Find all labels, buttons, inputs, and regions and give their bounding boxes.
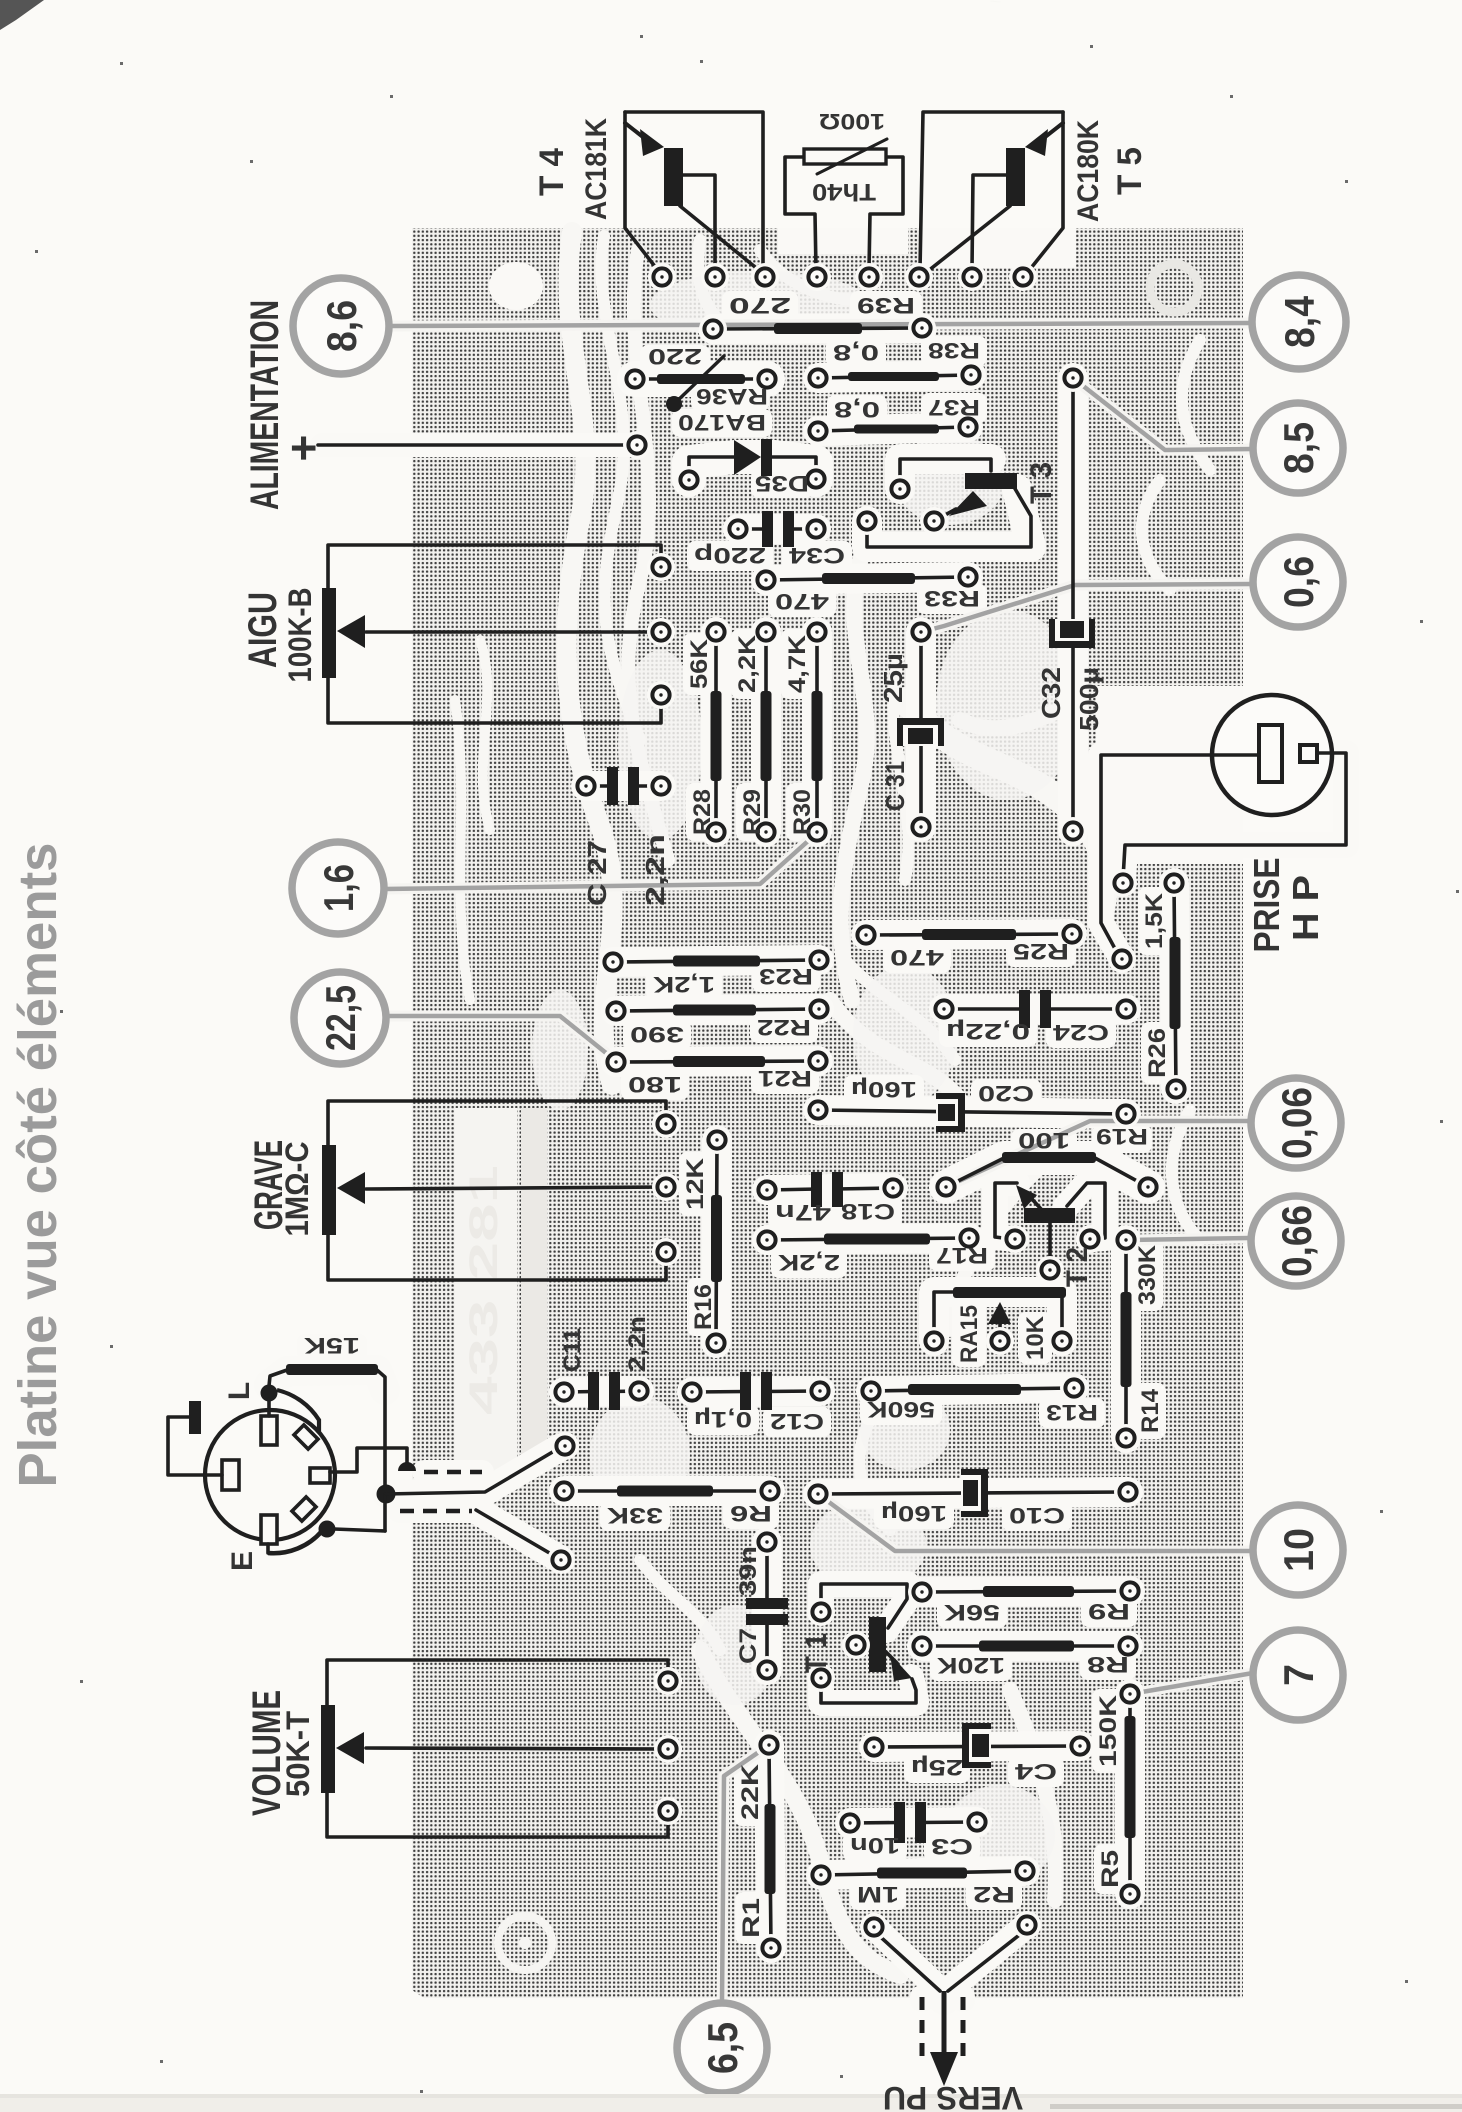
svg-text:0,8: 0,8 (833, 340, 879, 365)
svg-text:R25: R25 (1013, 939, 1069, 964)
svg-text:R28: R28 (689, 789, 716, 835)
resistor R14 (1112, 1226, 1164, 1452)
svg-text:C11: C11 (559, 1328, 586, 1372)
node E (319, 1521, 336, 1538)
svg-text:390: 390 (630, 1022, 684, 1047)
svg-text:8,4: 8,4 (1276, 295, 1323, 348)
resistor R1 (737, 1731, 785, 1962)
svg-text:56K: 56K (686, 638, 713, 689)
svg-text:22K: 22K (737, 1763, 764, 1820)
svg-text:C18: C18 (841, 1199, 895, 1224)
svg-text:E: E (226, 1551, 259, 1571)
svg-text:47n: 47n (775, 1200, 831, 1225)
svg-text:0,06: 0,06 (1273, 1087, 1320, 1159)
svg-text:270: 270 (729, 293, 791, 318)
resistor R26 (1141, 869, 1190, 1103)
resistor R28 (686, 618, 730, 846)
svg-text:22,5: 22,5 (317, 985, 364, 1051)
capacitor C12 (678, 1372, 834, 1434)
speaker jack PRISE HP (1212, 695, 1332, 815)
svg-text:8,6: 8,6 (318, 300, 365, 352)
resistor R25 (852, 920, 1086, 970)
resistor R19 100 (932, 1124, 1162, 1201)
resistor R2 (807, 1857, 1039, 1907)
svg-text:25µ: 25µ (878, 653, 908, 703)
white clearance pockets below top transistors (920, 228, 1076, 268)
transistor T2 (995, 1183, 1105, 1284)
svg-text:ALIMENTATION: ALIMENTATION (243, 300, 287, 510)
svg-text:0,22µ: 0,22µ (946, 1019, 1030, 1044)
svg-text:VERS PU: VERS PU (883, 2080, 1023, 2112)
resistor R21 (602, 1047, 832, 1097)
capacitor C18 (753, 1172, 907, 1225)
svg-text:12K: 12K (682, 1157, 709, 1210)
capacitor C24 (930, 990, 1140, 1045)
resistor R37 (804, 395, 982, 445)
white clearance areas around printed parts (713, 328, 922, 329)
top pads row rings (648, 263, 676, 291)
svg-text:180: 180 (628, 1072, 682, 1097)
resistor R5 (1095, 1680, 1144, 1908)
svg-text:2,2n: 2,2n (640, 834, 670, 906)
svg-text:RA15: RA15 (956, 1305, 983, 1363)
svg-text:0,6: 0,6 (1275, 556, 1322, 608)
resistor R8 (908, 1632, 1142, 1678)
svg-text:160µ: 160µ (851, 1077, 917, 1102)
test point 8,6 / 8,4: leader line and voltage circle (389, 323, 1252, 326)
svg-text:433 281: 433 281 (462, 1165, 506, 1415)
HP wiring (1101, 753, 1346, 973)
capacitor C10 (electrolytic) (804, 1469, 1142, 1528)
svg-text:1MΩ-C: 1MΩ-C (279, 1142, 315, 1237)
svg-text:R6: R6 (730, 1501, 772, 1526)
board mounting hole (ring) bottom-left (498, 1916, 552, 1970)
potentiometer AIGU 100K-B (322, 545, 675, 723)
power feed wire (+) (318, 431, 651, 459)
trimmer RA15 10K (920, 1287, 1076, 1363)
svg-text:7: 7 (1275, 1664, 1322, 1686)
resistor R29 (734, 618, 780, 846)
trimmer RA36 220 (621, 344, 781, 412)
resistor R33 (752, 563, 982, 614)
svg-text:500µ: 500µ (1074, 667, 1104, 731)
svg-text:R5: R5 (1097, 1850, 1124, 1888)
svg-text:T 3: T 3 (1025, 462, 1058, 504)
top pads row (649, 264, 675, 290)
capacitor C31 (electrolytic) (897, 618, 944, 841)
svg-text:R21: R21 (758, 1066, 812, 1091)
svg-text:56K: 56K (944, 1600, 1000, 1625)
resistor R23 (599, 946, 833, 997)
svg-text:15K: 15K (304, 1333, 360, 1358)
svg-text:C24: C24 (1052, 1020, 1109, 1045)
svg-text:R8: R8 (1087, 1652, 1129, 1677)
white silk strip with faint board number 433 281 (455, 1108, 517, 1470)
svg-text:0,66: 0,66 (1273, 1205, 1320, 1277)
PCB copper halftone area (412, 228, 1243, 1998)
svg-text:T 1: T 1 (800, 1633, 833, 1673)
svg-text:8,5: 8,5 (1275, 422, 1322, 474)
svg-text:560K: 560K (867, 1397, 935, 1422)
svg-text:1,6: 1,6 (315, 864, 362, 912)
svg-text:25µ: 25µ (911, 1755, 963, 1780)
svg-text:1,2K: 1,2K (653, 972, 715, 997)
svg-text:1,5K: 1,5K (1141, 892, 1168, 949)
capacitor C27 (572, 767, 675, 805)
svg-text:220p: 220p (694, 543, 766, 568)
resistor R22 (602, 995, 833, 1047)
capacitor C11 (550, 1372, 653, 1410)
svg-text:470: 470 (890, 945, 944, 970)
svg-text:39n: 39n (735, 1546, 762, 1596)
capacitor C20 (electrolytic) (804, 1077, 1140, 1132)
svg-text:R29: R29 (739, 789, 766, 835)
svg-text:220: 220 (648, 344, 702, 369)
svg-text:10: 10 (1275, 1528, 1322, 1572)
test point 0,6: leader line and voltage circle (921, 584, 1253, 632)
svg-text:R33: R33 (924, 586, 980, 611)
svg-text:C10: C10 (1009, 1503, 1065, 1528)
broad light regions (etched copper clearances) (618, 650, 702, 840)
svg-text:Th40: Th40 (812, 178, 876, 205)
svg-text:R37: R37 (928, 395, 980, 420)
copper isolation channels (white meanders) (567, 232, 613, 1085)
svg-text:R16: R16 (690, 1284, 717, 1330)
test point 0,66: leader line and voltage circle (1130, 1238, 1249, 1240)
test point 1,6: leader line and voltage circle (384, 833, 817, 889)
node L (261, 1385, 278, 1402)
thermistor Th40 100Ω (785, 139, 903, 270)
resistor R30 (784, 618, 831, 846)
svg-text:1M: 1M (857, 1882, 899, 1907)
node (switch pad upper) (551, 1432, 579, 1460)
svg-text:160µ: 160µ (881, 1501, 947, 1526)
svg-text:C3: C3 (931, 1834, 973, 1859)
diode D35 BA170 (675, 410, 830, 496)
svg-text:2,2K: 2,2K (734, 634, 761, 693)
resistor R39 (699, 293, 936, 343)
svg-text:R9: R9 (1088, 1599, 1130, 1624)
test point 22,5: leader line and voltage circle (386, 1016, 616, 1061)
DIN connector (pick-up input) (205, 1382, 385, 1571)
svg-text:R39: R39 (857, 293, 915, 318)
transistor T3 (853, 459, 1031, 547)
svg-text:BA170: BA170 (678, 410, 766, 435)
svg-text:R1: R1 (738, 1898, 765, 1938)
resistor R38 (804, 338, 985, 392)
svg-text:50K-T: 50K-T (280, 1711, 316, 1797)
resistor R13 (857, 1374, 1098, 1425)
svg-text:0,8: 0,8 (834, 397, 880, 422)
test point 6,5: leader line and voltage circle (722, 1745, 769, 2002)
svg-text:100: 100 (1018, 1128, 1070, 1153)
node (switch pad lower) (547, 1546, 575, 1574)
svg-text:C 31: C 31 (880, 761, 910, 811)
svg-text:H P: H P (1285, 875, 1326, 941)
svg-text:AIGU: AIGU (241, 592, 285, 668)
svg-text:PRISE: PRISE (1246, 858, 1287, 953)
resistor R6 (550, 1477, 784, 1528)
resistor 15K (on DIN connector) (269, 1333, 385, 1487)
transistor T4 AC181K (625, 112, 763, 273)
svg-text:C20: C20 (978, 1081, 1034, 1106)
transistor T5 AC180K (920, 112, 1063, 273)
DIN output junction and switch wires (330, 1432, 579, 1574)
resistor R17 (753, 1224, 988, 1275)
potentiometer GRAVE 1MΩ-C (322, 1101, 680, 1280)
svg-text:L: L (223, 1382, 256, 1400)
svg-text:2,2K: 2,2K (778, 1250, 840, 1275)
svg-text:R17: R17 (936, 1243, 988, 1268)
svg-text:6,5: 6,5 (699, 2022, 746, 2074)
test point 8,5: leader line and voltage circle (1073, 378, 1253, 450)
svg-text:T 5: T 5 (1111, 147, 1149, 195)
test point 10: leader line and voltage circle (818, 1494, 1253, 1551)
capacitor C34 (694, 511, 845, 568)
plug symbol at DIN left (168, 1401, 222, 1475)
svg-text:0,1µ: 0,1µ (694, 1407, 752, 1432)
svg-text:R38: R38 (928, 338, 980, 363)
capacitor C32 (electrolytic) (1049, 364, 1095, 845)
transistor T1 (807, 1584, 916, 1703)
svg-text:C4: C4 (1014, 1759, 1057, 1784)
svg-text:100Ω: 100Ω (819, 109, 885, 134)
test point 8,4 circle (1252, 275, 1346, 369)
board mounting hole (ring) top-right (1150, 264, 1198, 312)
svg-text:R23: R23 (759, 964, 813, 989)
capacitor C7 39n (vertical) (735, 1528, 788, 1684)
svg-text:R2: R2 (973, 1882, 1015, 1907)
svg-text:33K: 33K (607, 1503, 663, 1528)
svg-text:470: 470 (775, 589, 829, 614)
potentiometer VOLUME 50K-T (321, 1660, 682, 1837)
svg-text:C32: C32 (1036, 667, 1066, 719)
resistor R9 (908, 1577, 1144, 1625)
svg-text:AC180K: AC180K (1072, 120, 1105, 222)
svg-text:Platine vue côté éléments: Platine vue côté éléments (8, 843, 68, 1488)
svg-text:AC181K: AC181K (580, 118, 613, 220)
svg-text:C34: C34 (788, 543, 845, 568)
svg-text:R13: R13 (1046, 1400, 1098, 1425)
svg-text:100K-B: 100K-B (282, 588, 318, 683)
svg-text:RA36: RA36 (696, 384, 768, 409)
board mounting hole (white) top-left (489, 262, 543, 310)
wires to VERS PU with arrow (860, 1911, 1041, 2086)
resistor R16 (682, 1126, 731, 1357)
capacitor C3 (836, 1802, 991, 1859)
svg-text:T 4: T 4 (533, 148, 571, 196)
test point 0,06: leader line and voltage circle (946, 1121, 1251, 1187)
svg-text:R19: R19 (1096, 1124, 1148, 1149)
svg-text:R26: R26 (1144, 1028, 1171, 1078)
test point 7: leader line and voltage circle (1130, 1673, 1253, 1694)
svg-text:R22: R22 (757, 1015, 811, 1040)
svg-text:150K: 150K (1095, 1694, 1122, 1767)
svg-text:C 27: C 27 (582, 840, 612, 906)
capacitor C4 (electrolytic) (860, 1723, 1094, 1784)
svg-text:C12: C12 (770, 1409, 824, 1434)
svg-text:T 2: T 2 (1061, 1247, 1094, 1287)
svg-text:4,7K: 4,7K (784, 634, 811, 693)
svg-text:10n: 10n (850, 1833, 900, 1858)
svg-text:10K: 10K (1022, 1315, 1049, 1360)
svg-text:D35: D35 (755, 471, 809, 496)
svg-text:C7: C7 (735, 1628, 762, 1664)
svg-text:R30: R30 (789, 789, 816, 835)
svg-text:+: + (277, 435, 329, 462)
scan artifacts (0, 0, 44, 30)
svg-text:120K: 120K (937, 1653, 1005, 1678)
svg-text:R14: R14 (1137, 1388, 1164, 1433)
svg-text:2,2n: 2,2n (624, 1316, 651, 1372)
svg-text:330K: 330K (1134, 1244, 1161, 1305)
